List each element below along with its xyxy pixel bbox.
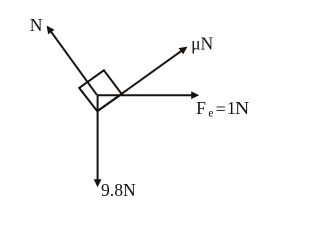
svg-text:μN: μN [191, 34, 213, 54]
svg-text:=: = [216, 99, 226, 119]
svg-text:e: e [208, 107, 213, 119]
svg-text:F: F [196, 98, 206, 118]
svg-text:N: N [235, 98, 250, 118]
svg-text:9.8N: 9.8N [101, 180, 136, 200]
svg-text:N: N [30, 15, 43, 35]
